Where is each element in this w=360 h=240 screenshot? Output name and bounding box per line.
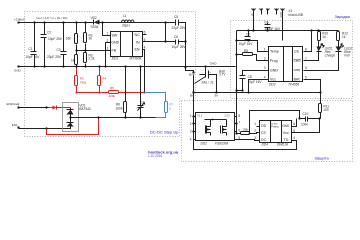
svg-text:8: 8 xyxy=(305,47,307,51)
svg-text:5: 5 xyxy=(144,38,146,42)
svg-text:6: 6 xyxy=(305,66,307,70)
svg-text:C3: C3 xyxy=(57,48,61,52)
svg-text:220k: 220k xyxy=(109,94,116,98)
svg-text:B+: B+ xyxy=(215,94,219,98)
svg-text:100k: 100k xyxy=(116,107,123,111)
svg-text:2.2k: 2.2k xyxy=(89,57,95,61)
svg-text:OD: OD xyxy=(261,124,267,128)
svg-text:8: 8 xyxy=(238,114,240,118)
svg-text:G1 2: G1 2 xyxy=(197,115,203,118)
svg-text:6: 6 xyxy=(238,128,240,132)
svg-text:TP4056: TP4056 xyxy=(288,83,299,87)
svg-text:2 G2: 2 G2 xyxy=(225,115,231,118)
svg-text:10µF 16V: 10µF 16V xyxy=(26,55,41,59)
svg-text:GND: GND xyxy=(111,41,119,45)
svg-text:3: 3 xyxy=(264,66,266,70)
svg-text:-: - xyxy=(202,70,203,74)
svg-text:5: 5 xyxy=(293,129,295,133)
svg-text:GND: GND xyxy=(14,68,22,72)
svg-text:1: 1 xyxy=(254,122,256,126)
svg-text:Vcc: Vcc xyxy=(283,131,289,135)
svg-text:750k: 750k xyxy=(80,80,87,84)
svg-text:DD1: DD1 xyxy=(112,57,119,61)
svg-text:22µH: 22µH xyxy=(122,24,130,28)
svg-text:C2: C2 xyxy=(47,31,51,35)
svg-text:Prog: Prog xyxy=(270,59,278,63)
svg-text:C5: C5 xyxy=(174,15,178,19)
svg-text:10µF 25V: 10µF 25V xyxy=(48,37,63,41)
svg-text:10µF 16V: 10µF 16V xyxy=(248,80,263,84)
svg-text:22µF 25V: 22µF 25V xyxy=(172,26,187,30)
svg-text:Vout = 0.8 * (1 + R1 / R2): Vout = 0.8 * (1 + R1 / R2) xyxy=(36,16,67,20)
svg-text:Full: Full xyxy=(344,54,349,58)
svg-text:4: 4 xyxy=(264,76,266,80)
svg-text:Protect: Protect xyxy=(271,125,279,128)
svg-text:EN1: EN1 xyxy=(12,123,18,127)
svg-text:+5 ВЫХ: +5 ВЫХ xyxy=(14,17,25,21)
svg-text:2: 2 xyxy=(190,122,192,126)
svg-text:3: 3 xyxy=(107,47,109,51)
svg-text:7: 7 xyxy=(238,121,240,125)
svg-text:BAT54C: BAT54C xyxy=(79,107,92,111)
svg-text:Зарядка: Зарядка xyxy=(335,14,351,19)
svg-text:SA1 / J1: SA1 / J1 xyxy=(202,80,214,84)
svg-text:DD4: DD4 xyxy=(262,143,269,147)
svg-text:GND: GND xyxy=(280,12,283,18)
svg-text:1k: 1k xyxy=(71,58,75,62)
svg-text:TD: TD xyxy=(284,138,289,142)
svg-text:DD2: DD2 xyxy=(201,142,208,146)
svg-text:4: 4 xyxy=(190,137,192,141)
svg-text:CE: CE xyxy=(294,50,300,54)
svg-text:16k: 16k xyxy=(66,36,72,40)
svg-text:C1: C1 xyxy=(29,47,33,51)
svg-text:CHG: CHG xyxy=(294,59,302,63)
svg-text:C6: C6 xyxy=(264,21,268,25)
svg-text:Stdby: Stdby xyxy=(294,68,301,72)
svg-text:EN2/Uadj: EN2/Uadj xyxy=(7,102,20,106)
svg-text:22µF 25V: 22µF 25V xyxy=(47,55,62,59)
svg-text:EN: EN xyxy=(135,48,140,52)
svg-text:C4: C4 xyxy=(141,101,145,105)
svg-text:R5: R5 xyxy=(110,86,114,90)
svg-text:2: 2 xyxy=(264,57,266,61)
svg-text:C6: C6 xyxy=(174,35,178,39)
svg-text:10µF 25V: 10µF 25V xyxy=(172,45,187,49)
svg-text:R9: R9 xyxy=(244,128,248,132)
svg-text:100: 100 xyxy=(323,108,329,112)
svg-text:GND: GND xyxy=(282,124,290,128)
svg-text:FB: FB xyxy=(112,49,117,53)
svg-text:C10: C10 xyxy=(303,112,309,116)
svg-text:C7: C7 xyxy=(246,33,250,37)
svg-text:DW01A: DW01A xyxy=(277,143,288,147)
svg-text:3: 3 xyxy=(190,130,192,134)
svg-text:OC: OC xyxy=(261,138,267,142)
svg-text:GND: GND xyxy=(270,68,278,72)
svg-text:DC-DC Step Up: DC-DC Step Up xyxy=(150,130,179,135)
svg-text:SS34: SS34 xyxy=(91,25,99,29)
svg-text:FS8205A: FS8205A xyxy=(215,142,228,146)
svg-text:2: 2 xyxy=(254,129,256,133)
svg-text:CS: CS xyxy=(261,131,267,135)
svg-text:1: 1 xyxy=(264,47,266,51)
svg-text:B+: B+ xyxy=(189,73,193,77)
svg-text:1: 1 xyxy=(190,114,192,118)
svg-text:4: 4 xyxy=(293,136,295,140)
svg-text:1k: 1k xyxy=(322,35,326,39)
svg-text:DD3: DD3 xyxy=(269,83,276,87)
svg-text:1.10.2016: 1.10.2016 xyxy=(148,154,162,158)
svg-text:IN: IN xyxy=(136,40,140,44)
svg-text:10µF 16V: 10µF 16V xyxy=(239,42,254,46)
svg-text:Charge: Charge xyxy=(325,54,336,58)
svg-text:3k: 3k xyxy=(89,37,93,41)
svg-text:100n: 100n xyxy=(301,122,308,126)
svg-text:GND: GND xyxy=(210,62,218,66)
svg-text:4: 4 xyxy=(144,45,146,49)
svg-text:5: 5 xyxy=(305,76,307,80)
svg-text:Temp: Temp xyxy=(270,50,279,54)
svg-text:NC: NC xyxy=(135,33,141,37)
svg-text:microUSB: microUSB xyxy=(289,13,303,17)
svg-text:Vcc: Vcc xyxy=(270,78,276,82)
svg-text:1k: 1k xyxy=(342,35,346,39)
svg-text:L1: L1 xyxy=(123,14,127,18)
svg-text:BAT: BAT xyxy=(294,78,300,82)
svg-text:3.7V: 3.7V xyxy=(219,73,226,77)
svg-text:SW: SW xyxy=(112,34,118,38)
svg-text:6: 6 xyxy=(293,122,295,126)
svg-text:R8: R8 xyxy=(244,49,248,53)
svg-text:3: 3 xyxy=(254,136,256,140)
svg-text:Защита: Защита xyxy=(315,156,330,161)
svg-text:MT3608: MT3608 xyxy=(130,57,142,61)
svg-text:C8: C8 xyxy=(248,75,252,79)
